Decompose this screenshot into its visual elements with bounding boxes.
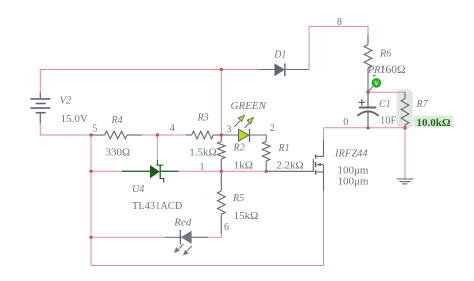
resistor R3 — [186, 131, 221, 139]
junction left column / red LED row — [89, 236, 92, 239]
arrows — [235, 121, 241, 127]
diode D1 — [258, 63, 309, 76]
svg-text:15kΩ: 15kΩ — [234, 210, 259, 222]
battery V2 — [30, 92, 50, 123]
svg-text:0: 0 — [343, 117, 348, 128]
svg-text:R7: R7 — [416, 99, 429, 110]
svg-text:6: 6 — [224, 222, 229, 233]
svg-text:1kΩ: 1kΩ — [234, 160, 253, 172]
wire D1 to node8 rail to R6 — [309, 26, 368, 69]
svg-text:8: 8 — [337, 17, 342, 28]
svg-text:10F: 10F — [380, 116, 397, 127]
junction node 4 — [156, 133, 159, 136]
junction node 3 — [220, 133, 223, 136]
shunt regulator U4 TL431ACD — [122, 160, 179, 183]
wire node0 row — [324, 127, 406, 129]
svg-text:U4: U4 — [132, 184, 144, 195]
resistor R6 — [364, 34, 372, 92]
svg-text:100μm: 100μm — [338, 164, 369, 176]
junction node 0 at R7 bottom — [403, 126, 406, 129]
wire node1 row left of U4 — [91, 170, 122, 172]
red LED — [165, 230, 208, 256]
resistor R5 — [218, 171, 226, 234]
arrows — [179, 244, 184, 249]
svg-text:100μm: 100μm — [338, 176, 369, 188]
svg-text:R1: R1 — [278, 143, 290, 154]
junction node 0 at C1 bottom — [366, 126, 369, 129]
svg-text:15.0V: 15.0V — [61, 113, 88, 125]
green LED D? — [221, 115, 266, 142]
svg-text:R5: R5 — [232, 193, 244, 204]
wire node3 vertical to top rail — [220, 70, 222, 136]
svg-text:Red: Red — [173, 217, 192, 229]
svg-text:4: 4 — [170, 123, 175, 134]
svg-text:3: 3 — [227, 125, 232, 136]
junction node 1 at R1 bottom — [265, 170, 268, 173]
MOSFET IRFZ44 — [266, 140, 323, 191]
svg-text:D1: D1 — [273, 49, 286, 60]
svg-text:V2: V2 — [60, 96, 72, 107]
probe PR1 — [368, 75, 380, 91]
wire red LED row — [91, 236, 165, 238]
svg-text:1: 1 — [200, 162, 205, 173]
junction R6/C1/R7 node — [366, 91, 369, 94]
svg-text:2: 2 — [270, 123, 275, 134]
wire node1 row U4 to R1 — [179, 170, 267, 172]
junction left column / U4 anode row — [89, 170, 92, 173]
R7 highlight pill — [397, 89, 413, 128]
R7 value highlight box — [414, 116, 453, 128]
MOSFET body arrow — [317, 163, 321, 167]
wire source to bottom rail — [323, 191, 325, 266]
wire left column — [90, 135, 92, 266]
wire node between R6,C1,R7 — [368, 91, 405, 93]
wire node4 segment R4-R3 — [142, 134, 186, 136]
svg-text:1.5kΩ: 1.5kΩ — [189, 146, 216, 158]
junction node 5 — [89, 133, 92, 136]
junction node 1 at R2/R5 — [220, 170, 223, 173]
svg-text:C1: C1 — [379, 99, 391, 110]
resistor R1 — [262, 141, 270, 171]
svg-text:R2: R2 — [233, 143, 245, 154]
resistor R7 — [401, 92, 409, 128]
ground — [397, 178, 414, 184]
resistor R4 — [91, 131, 142, 139]
junction top rail / node3 branch — [220, 68, 223, 71]
svg-text:330Ω: 330Ω — [106, 146, 131, 158]
wire top rail from V2 to D1 — [40, 70, 258, 93]
wire bottom rail — [91, 265, 324, 267]
svg-text:10.0kΩ: 10.0kΩ — [417, 117, 451, 129]
svg-text:V: V — [374, 81, 378, 87]
svg-text:GREEN: GREEN — [231, 100, 267, 112]
resistor R2 — [218, 135, 226, 171]
svg-text:2.2kΩ: 2.2kΩ — [276, 159, 303, 171]
svg-text:TL431ACD: TL431ACD — [132, 201, 183, 212]
svg-text:R6: R6 — [379, 49, 391, 60]
svg-text:R3: R3 — [197, 113, 209, 124]
wire node4 vertical to U4 — [156, 135, 158, 160]
wire battery bottom to node 5 — [40, 123, 91, 135]
wire R5 bottom to red LED — [208, 234, 222, 238]
svg-text:PR1: PR1 — [367, 65, 385, 76]
svg-text:IRFZ44: IRFZ44 — [334, 149, 368, 160]
wire node0 to drain — [323, 128, 325, 140]
capacitor C1 — [357, 92, 378, 128]
wire R7 to ground — [404, 128, 406, 178]
svg-text:5: 5 — [92, 124, 97, 135]
svg-text:R4: R4 — [111, 115, 123, 126]
